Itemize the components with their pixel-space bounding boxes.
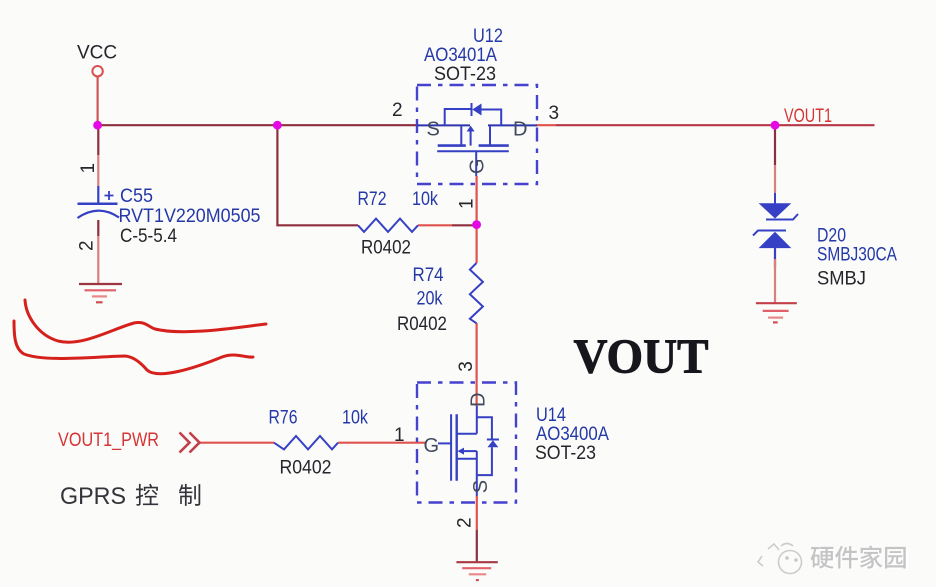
svg-text:R0402: R0402: [361, 238, 411, 259]
svg-text:10k: 10k: [412, 189, 438, 210]
svg-text:R76: R76: [269, 408, 298, 429]
svg-text:S: S: [470, 480, 492, 493]
svg-text:U14: U14: [536, 405, 566, 426]
svg-text:VCC: VCC: [77, 43, 117, 64]
svg-text:SOT-23: SOT-23: [535, 443, 596, 464]
svg-text:VOUT1_PWR: VOUT1_PWR: [58, 430, 159, 451]
svg-text:3: 3: [456, 361, 477, 372]
svg-text:R0402: R0402: [280, 458, 332, 479]
svg-text:S: S: [427, 119, 440, 141]
svg-text:G: G: [467, 158, 489, 174]
svg-text:RVT1V220M0505: RVT1V220M0505: [119, 206, 261, 227]
svg-text:D: D: [513, 119, 527, 141]
svg-text:VOUT1: VOUT1: [784, 106, 832, 127]
svg-text:10k: 10k: [342, 408, 368, 429]
svg-text:2: 2: [77, 240, 98, 251]
svg-text:1: 1: [457, 198, 478, 209]
svg-text:D: D: [468, 393, 490, 407]
svg-text:C55: C55: [120, 186, 153, 207]
svg-text:SMBJ30CA: SMBJ30CA: [817, 245, 897, 266]
svg-text:SOT-23: SOT-23: [434, 64, 496, 85]
svg-text:U12: U12: [473, 26, 503, 47]
svg-text:AO3401A: AO3401A: [424, 45, 497, 66]
svg-text:GPRS: GPRS: [60, 483, 126, 510]
svg-text:2: 2: [392, 100, 403, 121]
svg-text:C-5-5.4: C-5-5.4: [120, 226, 177, 247]
svg-text:D20: D20: [817, 226, 846, 247]
svg-text:2: 2: [455, 517, 476, 528]
svg-text:G: G: [424, 435, 440, 457]
svg-text:R0402: R0402: [397, 314, 447, 335]
svg-text:1: 1: [78, 163, 99, 174]
svg-text:1: 1: [394, 425, 405, 446]
svg-text:SMBJ: SMBJ: [817, 269, 866, 290]
svg-text:R74: R74: [413, 265, 444, 286]
svg-text:3: 3: [549, 103, 560, 124]
svg-text:AO3400A: AO3400A: [536, 424, 609, 445]
svg-text:20k: 20k: [417, 289, 443, 310]
svg-text:VOUT: VOUT: [574, 329, 709, 384]
svg-text:R72: R72: [358, 189, 387, 210]
